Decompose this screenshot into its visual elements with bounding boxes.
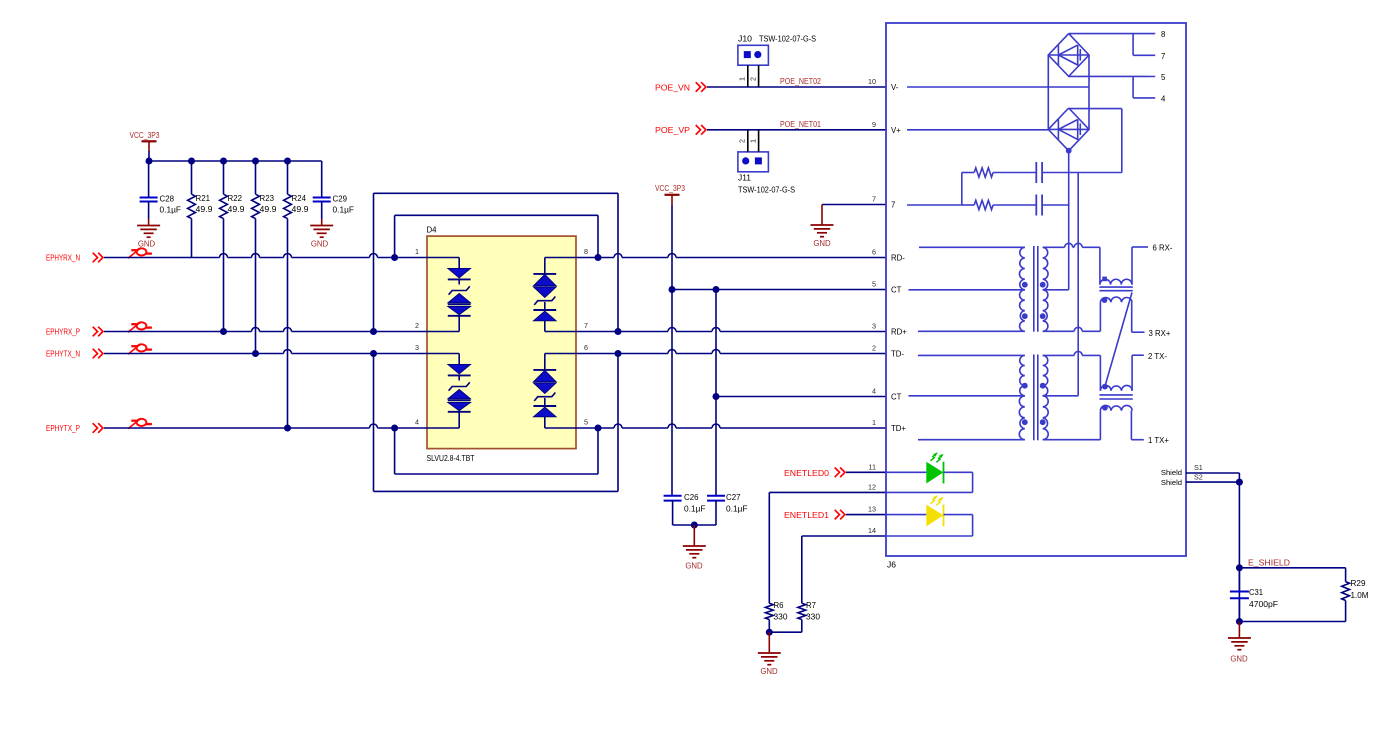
wire J6 pin14 to R7 [802, 536, 886, 603]
svg-text:POE_NET01: POE_NET01 [780, 119, 821, 129]
junction dots row2 [220, 328, 377, 335]
svg-text:330: 330 [806, 613, 821, 622]
transformer RX primary winding [909, 247, 1028, 331]
wire D4 pin8 to J6 RD- [545, 254, 886, 258]
pin numbers J6 left side [868, 77, 876, 535]
svg-text:2: 2 [415, 321, 419, 330]
label 1 TX+ [1148, 436, 1169, 445]
resistor R6 [765, 601, 788, 632]
port ENETLED0 [784, 468, 845, 478]
wire bridge2 top loop [1069, 109, 1122, 173]
resistor R22 [220, 161, 245, 332]
svg-text:0.1µF: 0.1µF [684, 505, 706, 514]
svg-text:2 TX-: 2 TX- [1148, 352, 1167, 361]
svg-text:0.1µF: 0.1µF [333, 206, 355, 215]
svg-text:2: 2 [738, 139, 747, 143]
TVS diode array D4 body [427, 226, 577, 464]
svg-text:4: 4 [415, 418, 419, 427]
wire D4 pin7 to J6 RD+ [545, 328, 886, 332]
svg-text:POE_NET02: POE_NET02 [780, 76, 821, 86]
internal resistor network bottom [907, 200, 1036, 209]
svg-text:4700pF: 4700pF [1249, 600, 1278, 609]
capacitor C27 [707, 493, 748, 525]
svg-text:J11: J11 [738, 174, 752, 183]
svg-text:CT: CT [891, 393, 902, 402]
svg-text:1: 1 [415, 247, 419, 256]
svg-text:R29: R29 [1351, 579, 1367, 588]
svg-text:3: 3 [872, 322, 876, 331]
choke TX top winding [1100, 355, 1143, 391]
svg-text:4: 4 [872, 387, 876, 396]
wire POE_VN to J6 V- [707, 86, 886, 88]
wire D4 loop pin2-pin7 (outer) [374, 193, 619, 331]
junction dot R6 R7 ground [766, 629, 773, 636]
svg-text:49.9: 49.9 [196, 205, 214, 214]
svg-text:ENETLED0: ENETLED0 [784, 468, 829, 478]
pin 7 stub right [1133, 34, 1165, 61]
net label POE_NET02 [780, 76, 821, 86]
pin S1 shield [1161, 463, 1240, 477]
wire bridge2 bottom to RX CT [1066, 148, 1072, 290]
svg-text:7: 7 [872, 195, 876, 204]
wire VCC_3P3 top bus [149, 160, 322, 162]
capacitor C26 [664, 493, 706, 525]
net label E_SHIELD [1248, 557, 1290, 567]
TVS diode stack D4 pins 8-7 [533, 258, 556, 332]
wire EPHYRX_P to D4 pin2 [104, 328, 459, 332]
svg-text:CT: CT [891, 286, 902, 295]
svg-text:J6: J6 [887, 561, 897, 570]
svg-text:D4: D4 [427, 226, 438, 235]
port POE_VN [655, 82, 706, 92]
internal capacitor top [1036, 162, 1122, 183]
connector J6 body [886, 23, 1186, 570]
svg-text:R7: R7 [806, 601, 817, 610]
wire TX secondary bottom to choke [1043, 439, 1101, 441]
crossover wire [1105, 293, 1132, 386]
pin 2 J11 [738, 130, 748, 152]
resistor R23 [252, 161, 277, 354]
svg-text:1.0M: 1.0M [1351, 591, 1369, 600]
svg-text:7: 7 [891, 201, 895, 210]
svg-text:GND: GND [311, 240, 329, 249]
port ENETLED1 [784, 510, 845, 520]
wire ENETLED0 to J6 pin11 [846, 471, 886, 473]
svg-text:EPHYRX_P: EPHYRX_P [46, 327, 80, 337]
resistor R7 [769, 601, 820, 632]
connector J11 [738, 152, 795, 195]
pin 4 stub right [1133, 77, 1166, 104]
junction dot D4 pin1 loop [391, 254, 398, 261]
transformer TX core [1034, 355, 1038, 441]
svg-text:7: 7 [1161, 52, 1165, 61]
svg-text:6 RX-: 6 RX- [1153, 244, 1173, 253]
label 3 RX+ [1149, 329, 1171, 338]
svg-text:S2: S2 [1194, 473, 1203, 482]
svg-text:R23: R23 [260, 194, 275, 203]
svg-text:GND: GND [760, 667, 778, 676]
svg-text:C26: C26 [684, 493, 699, 502]
svg-text:49.9: 49.9 [228, 205, 246, 214]
svg-text:1 TX+: 1 TX+ [1148, 436, 1169, 445]
wire E_SHIELD to R29 [1239, 568, 1345, 582]
wire CT5 to J6 pin5 [672, 289, 886, 291]
wire J6 V- internal [907, 86, 1089, 88]
pin 1 J10 [738, 65, 748, 87]
wire EPHYRX_N to D4 pin1 [104, 254, 459, 258]
svg-text:POE_VP: POE_VP [655, 125, 690, 135]
wire D4 loop pin3-pin6 (outer bottom) [374, 354, 619, 492]
ground below R6 R7 [758, 632, 781, 676]
svg-text:3 RX+: 3 RX+ [1149, 329, 1171, 338]
svg-text:5: 5 [872, 280, 876, 289]
svg-text:6: 6 [584, 343, 588, 352]
wire D4 pin6 to J6 TD- [545, 350, 886, 354]
wire D4 loop pin1-pin8 (inner) [395, 215, 598, 257]
port EPHYRX_P [46, 327, 103, 337]
wire D4 loop pin4-pin5 (inner bottom) [395, 428, 598, 474]
wire bridge interconnect right [1088, 55, 1090, 129]
svg-text:C28: C28 [160, 195, 175, 204]
resistor R29 [1239, 579, 1368, 622]
junction dot row4 right [595, 425, 602, 432]
LED green (pins 11-12) [886, 452, 973, 492]
svg-text:EPHYTX_N: EPHYTX_N [46, 349, 80, 359]
net label POE_NET01 [780, 119, 821, 129]
capacitor C29 [313, 161, 354, 219]
svg-text:1: 1 [749, 139, 758, 143]
transformer TX secondary winding [1040, 355, 1078, 439]
transformer RX core [1034, 246, 1038, 332]
port POE_VP [655, 125, 706, 135]
svg-text:9: 9 [872, 120, 876, 129]
bridge rectifier diamond 1 [1048, 34, 1089, 77]
port EPHYRX_N [46, 253, 103, 263]
svg-text:49.9: 49.9 [260, 205, 278, 214]
wire POE_VP to J6 V+ [707, 129, 886, 131]
svg-text:R22: R22 [228, 194, 243, 203]
svg-text:EPHYRX_N: EPHYRX_N [46, 253, 80, 263]
svg-text:Shield: Shield [1161, 468, 1182, 477]
svg-text:2: 2 [872, 344, 876, 353]
wire shield vertical [1236, 473, 1243, 625]
svg-text:R6: R6 [774, 601, 785, 610]
wire RX secondary top to choke [1043, 243, 1100, 247]
TVS diode stack D4 pins 6-5 [533, 354, 556, 429]
svg-text:12: 12 [868, 482, 876, 491]
power symbol VCC_3P3 (left) [130, 130, 160, 161]
svg-text:1: 1 [738, 77, 747, 81]
svg-text:V-: V- [891, 83, 899, 92]
svg-text:EPHYTX_P: EPHYTX_P [46, 423, 80, 433]
svg-text:6: 6 [872, 248, 876, 257]
svg-text:4: 4 [1161, 95, 1166, 104]
svg-text:GND: GND [813, 239, 831, 248]
svg-text:330: 330 [774, 613, 789, 622]
svg-text:Shield: Shield [1161, 478, 1182, 487]
svg-text:GND: GND [685, 562, 703, 571]
differential pair marker EPHYRX_N [128, 248, 152, 259]
svg-text:TSW-102-07-G-S: TSW-102-07-G-S [759, 35, 816, 44]
ground at J6 pin7 [811, 205, 834, 249]
wire D4 pin5 to J6 TD+ [545, 424, 886, 428]
junction dots row3 [252, 350, 377, 357]
junction dot VCC-CT [669, 286, 676, 293]
port EPHYTX_P [46, 423, 103, 433]
wire C26/C27 ground join [673, 522, 716, 529]
wire EPHYTX_P to D4 pin4 [104, 424, 459, 428]
wire CT4 to J6 pin4 [716, 396, 886, 398]
svg-text:14: 14 [868, 526, 876, 535]
svg-text:POE_VN: POE_VN [655, 82, 690, 92]
svg-text:7: 7 [584, 321, 588, 330]
svg-text:5: 5 [584, 418, 588, 427]
svg-text:1: 1 [872, 418, 876, 427]
junction dots row4 [284, 425, 398, 432]
svg-text:TSW-102-07-G-S: TSW-102-07-G-S [738, 186, 795, 195]
svg-text:C31: C31 [1249, 588, 1264, 597]
label 6 RX- [1153, 244, 1173, 253]
wire CT junction down to C27 [715, 290, 717, 496]
differential pair marker EPHYRX_P [128, 322, 152, 333]
resistor R21 [188, 161, 213, 258]
transformer TX primary winding [909, 355, 1028, 439]
choke TX core [1099, 395, 1132, 399]
svg-text:13: 13 [868, 505, 876, 514]
resistor R24 [284, 161, 309, 428]
svg-text:8: 8 [584, 247, 588, 256]
junction dot row3 right [615, 350, 622, 357]
power symbol VCC_3P3 (middle) [655, 183, 685, 205]
svg-text:R24: R24 [292, 194, 307, 203]
wire pin7 to ground [822, 204, 886, 206]
wire RX secondary bottom to choke [1043, 327, 1101, 331]
svg-text:49.9: 49.9 [292, 205, 310, 214]
svg-text:E_SHIELD: E_SHIELD [1248, 557, 1290, 567]
ground below C29 [310, 219, 333, 249]
wire VCC_3P3 down to C26 [671, 205, 673, 496]
choke TX bottom winding [1100, 405, 1143, 440]
pin numbers D4 left [415, 247, 419, 427]
choke RX bottom winding [1100, 297, 1144, 332]
svg-text:VCC_3P3: VCC_3P3 [655, 183, 685, 193]
svg-text:TD+: TD+ [891, 424, 906, 433]
svg-text:RD+: RD+ [891, 328, 907, 337]
port EPHYTX_N [46, 349, 103, 359]
svg-text:10: 10 [868, 77, 876, 86]
wire internal RC left vertical [961, 173, 963, 206]
pin names J6 left side [891, 83, 907, 433]
svg-text:S1: S1 [1194, 463, 1203, 472]
wire ENETLED1 to J6 pin13 [846, 514, 886, 516]
svg-text:V+: V+ [891, 126, 901, 135]
ground below C31 [1228, 622, 1251, 664]
wire bridge1 to pin 8 stub [1069, 30, 1166, 39]
wire TX secondary top to choke [1043, 351, 1101, 355]
transformer RX secondary winding [1040, 247, 1069, 331]
differential pair marker EPHYTX_P [128, 418, 152, 429]
svg-text:ENETLED1: ENETLED1 [784, 510, 829, 520]
capacitor C31 [1230, 568, 1278, 622]
LED yellow (pins 13-14) [886, 495, 973, 536]
wire EPHYTX_N to D4 pin3 [104, 350, 459, 354]
pin numbers D4 right [584, 247, 588, 427]
connector J10 [738, 35, 816, 66]
pin 1 J11 [749, 130, 759, 152]
pin S2 shield [1161, 473, 1240, 488]
internal resistor network top [962, 168, 1037, 177]
junction dots CT vertical [713, 286, 720, 400]
junction dots on VCC bus [146, 158, 292, 165]
bridge rectifier diamond 2 [1048, 108, 1089, 151]
svg-text:TD-: TD- [891, 350, 904, 359]
choke RX top winding [1100, 247, 1148, 285]
internal capacitor bottom [1036, 195, 1068, 216]
svg-text:R21: R21 [196, 194, 211, 203]
junction dot row1 right [595, 254, 602, 261]
label 2 TX- [1148, 352, 1167, 361]
svg-text:0.1µF: 0.1µF [160, 206, 182, 215]
svg-text:0.1µF: 0.1µF [726, 505, 748, 514]
svg-text:GND: GND [1230, 655, 1248, 664]
pin 2 J10 [749, 65, 759, 87]
svg-text:VCC_3P3: VCC_3P3 [130, 130, 160, 140]
svg-text:5: 5 [1161, 73, 1166, 82]
svg-text:2: 2 [749, 77, 758, 81]
wire bridge1 to pin 5 stub [1069, 73, 1166, 82]
svg-text:SLVU2.8-4.TBT: SLVU2.8-4.TBT [427, 454, 475, 463]
capacitor C28 [140, 161, 182, 219]
ground below C28 [137, 219, 160, 249]
junction dot row2 right [615, 328, 622, 335]
TVS diode stack D4 pins 1-2 [448, 258, 471, 332]
TVS diode stack D4 pins 3-4 [448, 354, 471, 429]
ground below C26 C27 [683, 525, 706, 571]
svg-text:3: 3 [415, 343, 419, 352]
svg-text:RD-: RD- [891, 254, 905, 263]
wire J6 pin12 to R6 [769, 492, 886, 603]
wire J6 V+ internal [907, 129, 1048, 131]
wire bridge interconnect left [1047, 55, 1049, 129]
svg-text:C29: C29 [333, 195, 348, 204]
svg-text:11: 11 [869, 462, 876, 471]
choke RX core [1099, 287, 1132, 291]
differential pair marker EPHYTX_N [128, 344, 152, 355]
svg-text:J10: J10 [738, 35, 753, 44]
svg-text:C27: C27 [726, 493, 741, 502]
wire internal vertical B to TX CT [1077, 173, 1079, 396]
svg-text:8: 8 [1161, 30, 1165, 39]
